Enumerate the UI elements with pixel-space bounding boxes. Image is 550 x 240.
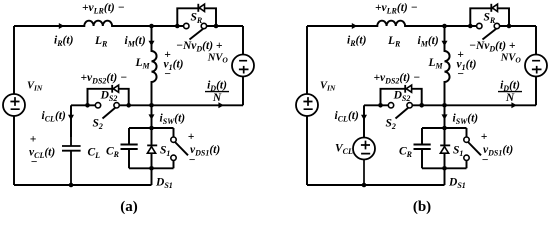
svg-text:(a): (a)	[120, 199, 138, 215]
svg-text:(b): (b)	[413, 199, 431, 215]
svg-text:−: −	[31, 157, 38, 169]
svg-text:+: +	[30, 134, 37, 146]
